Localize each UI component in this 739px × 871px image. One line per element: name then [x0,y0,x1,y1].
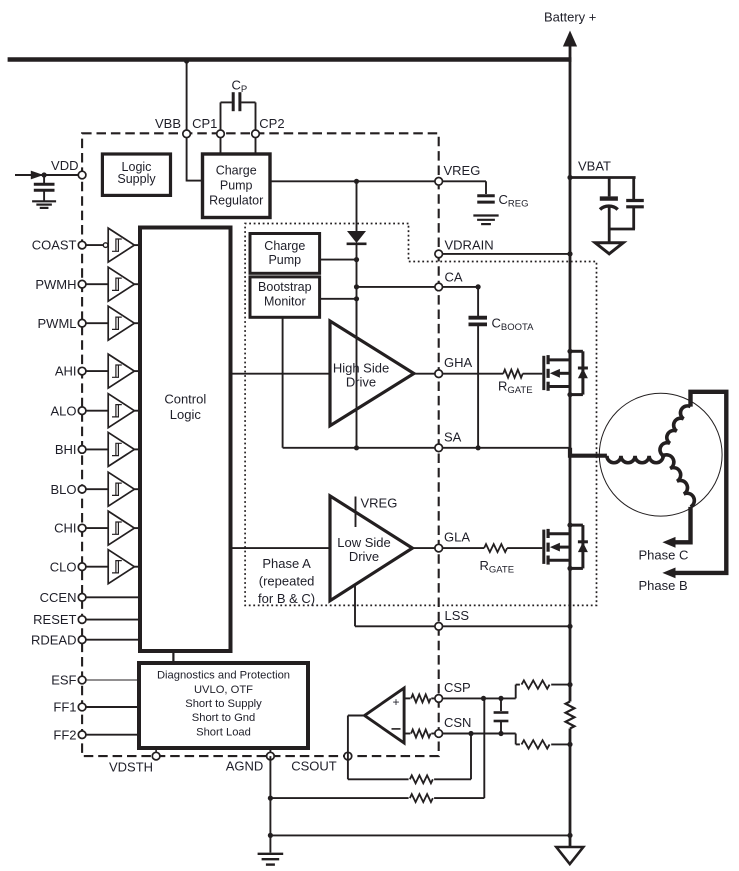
svg-text:AGND: AGND [226,759,264,774]
PWMH input wire [86,283,109,285]
buffer PWMH [108,267,134,301]
svg-text:Short to Supply: Short to Supply [185,698,262,710]
op-amp U2 low side drive [330,496,412,601]
capacitor C2 [626,201,644,230]
terminal PWML [78,319,86,327]
terminal SA [435,444,443,452]
svg-text:COAST: COAST [32,238,77,253]
svg-text:BLO: BLO [50,482,76,497]
svg-text:+: + [392,695,399,709]
svg-text:Charge: Charge [264,239,305,253]
svg-text:Low Side: Low Side [337,535,390,550]
charge pump box [250,234,320,274]
svg-text:RDEAD: RDEAD [31,632,77,647]
CSN outer wire [442,733,515,735]
terminal VDSTH [152,752,160,760]
terminal PWMH [78,280,86,288]
IC dashed border [82,133,439,756]
terminal AHI [78,367,86,375]
SA wire [283,447,570,449]
terminal CA [435,283,443,291]
svg-text:BHI: BHI [55,442,77,457]
LSS wire [354,585,356,627]
charge pump out wire [320,259,357,261]
svg-text:High Side: High Side [333,360,389,375]
svg-text:CSP: CSP [444,680,471,695]
AHI input wire [86,370,109,372]
resistor R6 [410,794,433,802]
feedback wire row1 [348,778,409,780]
terminal RESET [78,616,86,624]
svg-text:LSS: LSS [445,608,470,623]
terminal RDEAD [78,636,86,644]
bootstrap bottom wire [282,317,284,448]
control-diag connector wire [172,651,174,664]
svg-text:for B & C): for B & C) [258,591,315,606]
svg-text:VREG: VREG [444,163,481,178]
capacitor C3 [34,175,55,201]
svg-text:VBB: VBB [155,116,181,131]
CLO input wire [86,566,109,568]
bootstrap monitor box [250,277,320,317]
terminal GLA [435,544,443,552]
phase A lead wire [570,448,607,456]
svg-text:PWMH: PWMH [35,277,76,292]
svg-text:SA: SA [444,429,462,444]
VDSTH stub wire [155,748,157,756]
svg-text:Logic: Logic [170,407,202,422]
op-amp minus [392,728,401,730]
power bus [8,57,572,61]
terminal CCEN [78,594,86,602]
terminal CHI [78,524,86,532]
CHI input wire [86,527,109,529]
buffer BLO [108,472,134,506]
resistor RGATE B [484,544,507,552]
transistor Q1 high side [544,349,588,398]
svg-text:CP1: CP1 [192,116,217,131]
capacitor C1 electrolytic [600,199,618,229]
charge pump regulator box [203,154,271,218]
transistor Q2 low side [544,523,588,572]
terminal VDD [78,171,86,179]
COAST input wire [86,244,104,246]
CCEN wire [86,596,140,598]
svg-text:FF2: FF2 [53,727,76,742]
svg-text:GLA: GLA [444,530,470,545]
svg-text:CSOUT: CSOUT [291,759,337,774]
svg-text:CLO: CLO [50,559,77,574]
battery return ground [556,847,583,864]
svg-text:Pump: Pump [220,178,253,192]
buffer AHI [108,354,134,388]
svg-text:CA: CA [445,269,463,284]
terminal BHI [78,446,86,454]
motor winding B [660,406,691,456]
svg-text:Phase C: Phase C [639,548,689,563]
buffer PWML [108,306,134,340]
PWML input wire [86,322,109,324]
BLO input wire [86,488,109,490]
bootstrap charge wire [356,299,358,448]
svg-text:Monitor: Monitor [264,295,306,309]
AGND wire [269,756,271,852]
rail Q1 to SA [569,395,572,525]
rail sense lower [569,729,572,848]
svg-text:ESF: ESF [51,673,76,688]
svg-text:CHI: CHI [54,521,76,536]
svg-text:Phase B: Phase B [639,578,688,593]
op-amp U3 sense amp [365,688,405,743]
svg-text:VDSTH: VDSTH [109,760,153,775]
ALO input wire [86,410,109,412]
svg-text:Drive: Drive [346,374,376,389]
CSP outer wire [442,697,515,699]
buffer COAST [108,228,134,262]
buffer BHI [108,432,134,466]
svg-text:Control: Control [164,392,206,407]
battery rail upper [569,60,572,352]
FF2 wire [86,734,140,736]
terminal COAST [78,241,86,249]
terminal ALO [78,407,86,415]
VBB wire [184,58,203,181]
VDD input arrow [31,171,44,180]
svg-text:AHI: AHI [55,364,77,379]
VDD junction [42,172,47,177]
BHI input wire [86,448,109,450]
motor winding A [607,456,663,463]
svg-text:VDD: VDD [51,158,78,173]
svg-text:Pump: Pump [268,253,301,267]
svg-text:Phase A: Phase A [262,556,311,571]
motor center junction [661,453,666,458]
terminal CSP [435,695,443,703]
diagnostics box [139,663,308,748]
terminal GHA [435,370,443,378]
rail Q2 to sense [569,568,572,701]
svg-text:VBAT: VBAT [578,159,611,174]
resistor R5 [410,775,433,783]
motor circle [599,393,722,516]
svg-text:Battery +: Battery + [544,10,596,25]
GHA gate wire [442,373,503,375]
phase C arrow [662,537,675,548]
svg-text:(repeated: (repeated [259,574,315,589]
svg-text:CCEN: CCEN [40,590,77,605]
phase C lead wire [675,507,691,542]
svg-text:ALO: ALO [50,403,76,418]
terminal LSS [435,623,443,631]
ground link wire [270,834,570,836]
logic supply box [102,154,170,195]
VDRAIN wire [442,253,570,255]
control logic box [140,228,231,652]
buffer ALO [108,394,134,428]
resistor R1 [411,694,431,702]
CA wire [357,286,479,288]
terminal CP1 [217,130,225,138]
diode D1 [347,181,367,320]
terminal CSOUT [344,752,352,760]
svg-text:Diagnostics and Protection: Diagnostics and Protection [157,670,290,682]
low side input wire [231,547,331,549]
terminal ESF [78,676,86,684]
svg-text:RESET: RESET [33,612,76,627]
terminal VBB [183,130,191,138]
RESET wire [86,619,140,621]
VREG wire [270,179,486,194]
terminal CP2 [252,130,260,138]
svg-text:Bootstrap: Bootstrap [258,280,312,294]
buffer CLO [108,550,134,584]
svg-text:UVLO, OTF: UVLO, OTF [194,684,253,696]
CREG ground [473,216,498,225]
op-amp output wire [348,715,365,717]
VBAT cap ground wire [609,229,635,242]
capacitor CREG [477,196,495,202]
AGND ground [258,854,284,865]
svg-text:GHA: GHA [444,355,473,370]
svg-text:Short to Gnd: Short to Gnd [192,712,255,724]
VDD input wire [15,174,82,176]
capacitor C4 filter [494,698,509,733]
motor winding C [663,455,694,507]
terminal VREG [435,178,443,186]
VDD ground [32,201,56,208]
svg-text:Charge: Charge [216,164,257,178]
resistor R2 [522,680,550,688]
svg-text:VREG: VREG [361,496,398,511]
phase A dotted border [245,224,596,606]
CP1 wire [220,137,222,154]
CP2 wire [255,137,257,154]
CSP wire [404,697,410,699]
resistor R4 [522,740,550,748]
op-amp U1 high side drive [330,321,414,426]
feedback wire row2 [268,796,273,801]
terminal VDRAIN [435,250,443,258]
terminal AGND [267,752,275,760]
svg-text:Drive: Drive [349,549,379,564]
high side input wire [231,373,331,375]
GLA output wire [412,547,438,549]
resistor RGATE A [503,370,523,378]
phase B lead wire [675,392,726,573]
svg-text:FF1: FF1 [53,700,76,715]
terminal BLO [78,485,86,493]
capacitor CBOOTA [469,287,488,448]
buffer CHI [108,511,134,545]
low side VREG tick [355,497,357,528]
terminal FF1 [78,703,86,711]
resistor R3 [411,730,431,738]
terminal CSN [435,730,443,738]
svg-text:Supply: Supply [117,172,156,186]
VBAT wire [570,178,636,200]
svg-text:Regulator: Regulator [209,193,263,207]
svg-text:CP2: CP2 [259,116,284,131]
VBAT ground [595,243,623,254]
resistor RSENSE [566,702,575,729]
svg-text:CSN: CSN [444,715,471,730]
svg-text:PWML: PWML [38,316,77,331]
svg-text:VDRAIN: VDRAIN [445,237,494,252]
GLA gate wire [442,547,484,549]
svg-text:Short Load: Short Load [196,726,251,738]
ESF wire [86,679,140,681]
FF1 wire [86,706,140,708]
terminal CLO [78,563,86,571]
phase B arrow [662,568,675,579]
terminal FF2 [78,731,86,739]
AGND stub wire [269,748,271,756]
bootstrap out wire [320,298,357,300]
RDEAD wire [86,639,140,641]
battery arrow [563,31,577,47]
VBAT junction [567,175,572,180]
capacitor CP [221,92,256,134]
GHA output wire [414,373,439,375]
CSN wire [404,733,410,735]
